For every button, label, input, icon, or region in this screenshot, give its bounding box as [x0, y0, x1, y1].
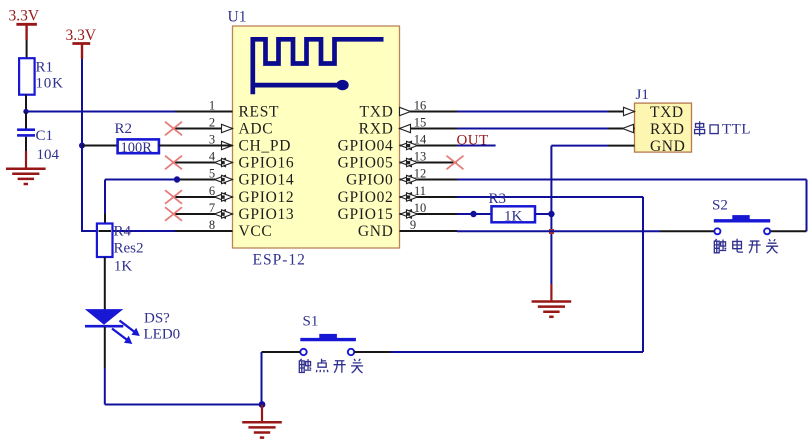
- pin 16 TXD output arrow: [400, 107, 411, 115]
- svg-text:RXD: RXD: [359, 121, 394, 138]
- svg-text:GPIO04: GPIO04: [338, 138, 394, 155]
- wire C1 bottom stub: [25, 137, 27, 151]
- pin 4 bidirectional arrow: [215, 158, 226, 166]
- no-connect X pin 7: [165, 207, 182, 221]
- U1 pin 2 stub wire: [175, 128, 233, 130]
- svg-text:R3: R3: [489, 191, 507, 207]
- svg-text:GPIO16: GPIO16: [239, 155, 295, 172]
- svg-text:10K: 10K: [36, 76, 64, 92]
- pin 5 bidirectional arrow: [215, 175, 226, 183]
- pin 2 ADC input arrow: [222, 124, 233, 132]
- wire 3.3V vertical rail: [81, 59, 83, 231]
- wire bottom horizontal to ground node: [105, 404, 262, 406]
- svg-text:TTL: TTL: [722, 122, 751, 138]
- svg-text:R4: R4: [114, 224, 132, 240]
- svg-text:6: 6: [209, 184, 215, 198]
- svg-text:1K: 1K: [114, 259, 132, 275]
- wire rail to R2: [82, 145, 118, 147]
- wire TXD net to J1: [457, 111, 608, 113]
- wire GND vertical rail: [550, 146, 552, 284]
- pin 7 bidirectional arrow: [215, 210, 226, 218]
- svg-text:15: 15: [414, 115, 427, 129]
- wire R4 bottom to LED: [104, 257, 106, 310]
- svg-text:3.3V: 3.3V: [9, 8, 40, 25]
- wire S1 right terminal: [354, 351, 391, 353]
- svg-text:3: 3: [209, 132, 215, 146]
- wire R1 top stub: [26, 40, 28, 58]
- wire node to C1: [25, 112, 27, 130]
- svg-text:104: 104: [37, 147, 60, 163]
- wire GPIO14 net horizontal: [105, 179, 177, 181]
- pin 12 bidirectional arrow: [401, 175, 412, 183]
- svg-text:GPIO12: GPIO12: [239, 189, 295, 206]
- wire GPIO15 to R3: [457, 213, 492, 215]
- svg-text:3.3V: 3.3V: [66, 27, 97, 44]
- svg-text:CH_PD: CH_PD: [239, 138, 292, 155]
- antenna meander trace inside U1: [253, 39, 384, 94]
- svg-text:TXD: TXD: [650, 104, 684, 121]
- svg-text:1K: 1K: [504, 208, 523, 224]
- svg-text:REST: REST: [239, 104, 280, 121]
- node R3 left junction: [470, 211, 476, 217]
- U1 pin 11 stub wire: [400, 196, 458, 198]
- wire GPIO0 right vertical: [806, 180, 808, 232]
- pin 6 bidirectional arrow: [215, 193, 226, 201]
- node ground junction bottom: [259, 401, 266, 408]
- node GPIO14 stub junction: [174, 176, 180, 182]
- resistor R1: [19, 58, 34, 94]
- svg-text:11: 11: [414, 184, 426, 198]
- wire RXD net to J1: [457, 128, 608, 130]
- U1 pin 16 stub wire: [400, 111, 458, 113]
- J1 GND stub: [608, 145, 635, 147]
- wire VCC horizontal to pin8: [81, 230, 175, 232]
- wire GND net pin9 to S2: [457, 230, 660, 232]
- svg-text:GND: GND: [650, 138, 685, 155]
- svg-text:GPIO15: GPIO15: [338, 206, 394, 223]
- wire S1 right to GPIO02 riser: [391, 351, 643, 353]
- wire R2 to pin3: [159, 145, 233, 147]
- wire GPIO0 net long horizontal: [457, 179, 807, 181]
- svg-text:4: 4: [209, 149, 216, 163]
- svg-text:J1: J1: [636, 87, 649, 103]
- wire S1 left down to ground node: [261, 352, 263, 405]
- pin 11 bidirectional arrow: [401, 193, 412, 201]
- svg-text:OUT: OUT: [457, 133, 489, 149]
- U1 pin 14 stub wire: [400, 145, 458, 147]
- no-connect X pin 2: [165, 122, 182, 136]
- svg-text:LED0: LED0: [144, 327, 181, 343]
- wire R1 bottom to node: [25, 95, 27, 112]
- svg-text:5: 5: [209, 166, 215, 180]
- node R2 tap on 3.3V rail: [79, 143, 85, 149]
- svg-text:U1: U1: [228, 9, 247, 26]
- U1 pin 4 stub wire: [175, 162, 233, 164]
- svg-text:GPIO0: GPIO0: [346, 172, 393, 189]
- U1 pin 3 stub wire: [175, 145, 233, 147]
- svg-text:7: 7: [209, 201, 215, 215]
- J1 TXD stub: [608, 111, 635, 113]
- power symbol 3.3V #2: [72, 44, 90, 60]
- J1 label 串口TTL: [695, 121, 751, 137]
- S1 label 触点开关: [299, 359, 363, 373]
- svg-text:R1: R1: [36, 60, 54, 76]
- power symbol 3.3V #1: [16, 24, 37, 40]
- node R3/GND rail junction: [548, 211, 554, 217]
- U1 pin 12 stub wire: [400, 179, 458, 181]
- pin 15 RXD input arrow: [400, 124, 411, 132]
- U1 pin 13 stub wire: [400, 162, 458, 164]
- svg-text:S1: S1: [303, 314, 319, 330]
- ground under C1: [25, 151, 27, 169]
- svg-text:GPIO14: GPIO14: [239, 172, 295, 189]
- wire to S2 right terminal: [770, 230, 806, 232]
- svg-text:GPIO02: GPIO02: [338, 189, 394, 206]
- svg-text:R2: R2: [115, 121, 133, 137]
- node R1/C1/REST junction: [23, 109, 28, 114]
- U1 pin 6 stub wire: [175, 196, 233, 198]
- wire GPIO04 OUT net: [457, 145, 496, 147]
- U1 pin 8 stub wire: [175, 230, 233, 232]
- J1 RXD stub: [608, 128, 635, 130]
- node GND/pin9 junction (red): [549, 229, 554, 234]
- J1 TXD arrow: [624, 107, 635, 115]
- svg-text:ADC: ADC: [239, 121, 274, 138]
- pin 10 bidirectional arrow: [401, 210, 412, 218]
- pin 14 bidirectional arrow: [401, 141, 412, 149]
- svg-text:9: 9: [410, 218, 416, 232]
- ground bottom center: [261, 405, 263, 423]
- svg-text:GPIO13: GPIO13: [239, 206, 295, 223]
- svg-text:GND: GND: [358, 223, 394, 240]
- wire REST net (node to pin1): [26, 111, 175, 113]
- no-connect X pin 4: [165, 156, 182, 170]
- svg-text:TXD: TXD: [360, 104, 394, 121]
- U1 pin 5 stub wire: [175, 179, 233, 181]
- U1 left pin numbers 1-8: [209, 98, 216, 232]
- S2 label 触电开关: [714, 239, 778, 253]
- wire GPIO02 horizontal: [457, 196, 643, 198]
- U1 right pin numbers 16-9: [410, 98, 427, 232]
- U1 pin 7 stub wire: [175, 213, 233, 215]
- svg-text:16: 16: [414, 98, 427, 112]
- svg-text:Res2: Res2: [114, 241, 144, 257]
- svg-text:C1: C1: [36, 128, 54, 144]
- wire S1 left terminal: [262, 351, 301, 353]
- op-amp U1 ESP-12 module body: [233, 26, 400, 248]
- wire GPIO02 riser vertical: [642, 197, 644, 352]
- wire LED cathode down: [104, 327, 106, 368]
- U1 pin 10 stub wire: [400, 213, 458, 215]
- pin 3 CH_PD input arrow: [222, 141, 233, 149]
- U1 pin 1 stub wire: [175, 111, 233, 113]
- svg-text:ESP-12: ESP-12: [253, 252, 306, 269]
- wire VCC crossing R4 body: [99, 230, 112, 232]
- wire J1 GND to rail: [551, 145, 608, 147]
- resistor R4: [97, 224, 113, 258]
- LED DS? LED0: [85, 309, 140, 344]
- svg-text:2: 2: [209, 115, 215, 129]
- svg-text:100R: 100R: [121, 140, 153, 156]
- svg-text:1: 1: [209, 98, 215, 112]
- no-connect X pin 13: [447, 156, 464, 170]
- svg-text:GPIO05: GPIO05: [338, 155, 394, 172]
- svg-text:S2: S2: [712, 198, 728, 214]
- U1 right pin name labels: [338, 104, 394, 241]
- U1 pin 15 stub wire: [400, 128, 458, 130]
- svg-text:RXD: RXD: [650, 121, 685, 138]
- svg-text:DS?: DS?: [144, 311, 170, 327]
- wire GPIO14 down to R4: [104, 180, 106, 215]
- svg-text:8: 8: [209, 218, 215, 232]
- svg-text:14: 14: [414, 132, 427, 146]
- capacitor C1: [17, 128, 35, 136]
- wire R3 to GND rail: [535, 213, 551, 215]
- U1 pin 9 stub wire: [400, 230, 458, 232]
- J1 RXD arrow: [623, 124, 634, 132]
- U1 left pin name labels: [239, 104, 295, 241]
- pin 13 bidirectional arrow: [401, 158, 412, 166]
- svg-text:VCC: VCC: [239, 223, 273, 240]
- ground middle: [550, 284, 552, 302]
- no-connect X pin 6: [165, 190, 182, 204]
